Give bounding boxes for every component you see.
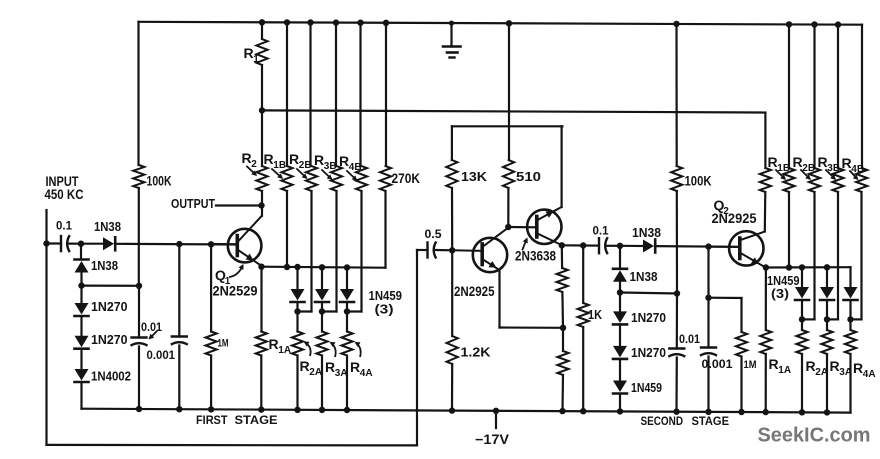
resistor R3B (first stage) [331,23,342,312]
svg-text:0.01: 0.01 [141,322,163,334]
svg-text:1N38: 1N38 [632,226,661,240]
node 0.001 top (second) [705,243,711,249]
wire 2N3638 emitter up [560,126,562,207]
svg-text:SECOND: SECOND [641,414,684,428]
label FIRST STAGE [196,413,278,427]
svg-text:2N2925: 2N2925 [712,211,757,226]
node shunt diode 2 top (first) [319,264,325,270]
resistor R2A (first stage) [292,312,303,411]
label R3B (second stage) [818,154,841,174]
wire C7 to bus [707,357,709,412]
wire chain tap to 100K node [82,285,140,287]
node 510 bottom / base 2N3638 [505,224,511,230]
resistor R4B column (second stage) [856,25,867,320]
wire chain segment d [80,316,82,336]
svg-text:OUTPUT: OUTPUT [171,196,215,211]
label 13K [461,170,487,184]
resistor R1B (first stage) [281,22,292,267]
wire input down leg [45,244,47,445]
arrow R2B [297,169,308,179]
resistor 270K [380,23,391,268]
label 0.1 (second stage) [593,224,609,238]
wire tee down to C7 [707,298,709,348]
label 1N38 shunt (second) [630,270,658,284]
resistor R1A (second stage) [760,268,771,413]
label 1N270 second (first) [91,332,128,347]
wire 0.001 column upper (second) [707,247,709,298]
label R4A (first stage) [350,359,373,379]
resistor 100K (second stage) [671,24,682,294]
node R1B bottom (first) [284,264,290,270]
label 1.2K [461,346,491,360]
wire jog R3B to diode b (second) [827,318,838,320]
svg-text:510: 510 [516,170,541,184]
wire C2 to ground bus [138,347,140,410]
arrow R2B second [801,170,811,180]
node R4A bottom (first) [344,407,350,413]
wire C1 to node [70,243,82,245]
svg-text:100K: 100K [147,173,172,189]
svg-text:R: R [768,154,778,170]
label R3B (first stage) [314,152,337,172]
diode 1N459 b (first stage) [315,267,329,311]
label 1M (second stage) [744,359,757,371]
svg-text:4B: 4B [349,162,362,173]
node diode a bottom (second) [799,316,805,322]
node R1B bottom (second) [786,264,792,270]
arrow 0.01 [149,332,157,340]
node C3 bottom [176,406,182,412]
wire jog R2B to diode a (second) [802,318,815,320]
wire chain segment a (second) [619,246,621,267]
wire jog R4B to diode c [347,310,362,312]
wire emitter row (first stage) [262,267,386,268]
svg-text:1N270: 1N270 [91,332,128,347]
capacitor 0.1 (second stage) [599,237,608,254]
svg-text:FIRST: FIRST [196,413,228,427]
arrow R1B [272,169,283,179]
svg-text:SeekIC.com: SeekIC.com [758,424,871,447]
node 1K top [580,242,586,248]
wire 0.001 column (first) [178,244,180,336]
wire 100K node down to C2 [138,286,140,338]
wire node to D1 [81,243,103,245]
node R1B top (second) [786,21,792,27]
wire Q2 collector up [764,192,767,232]
wire block top [452,125,563,127]
svg-text:1N270: 1N270 [631,345,666,360]
diode 1N38 series (second stage) [643,240,655,253]
resistor R2B column (second stage) [809,25,820,320]
wire D2 to Q2 base [657,245,741,248]
label 0.01 (second stage) [679,334,701,346]
node Q2 emitter [763,264,769,270]
node 1.2K bottom [449,407,455,413]
node 0.001 top (first) [176,241,182,247]
wire negative supply bus [82,409,851,413]
label 0.001 (first stage) [147,350,176,362]
label R2A (second stage) [806,358,829,378]
svg-text:100K: 100K [685,173,712,189]
resistor R3A (second stage) [821,319,832,412]
wire top supply rail [139,22,863,25]
label R2A (first stage) [300,358,323,378]
wire output lead [216,204,262,206]
node shunt diode 2 top (second) [824,264,830,270]
diode 1N459 shunt (second stage) [613,381,627,394]
node diode c bottom (first) [344,308,350,314]
svg-text:1A: 1A [778,365,791,376]
wire riser to C4 [417,249,428,251]
arrow R1B second [776,170,786,180]
node junction 100K / diode chain / C2 [136,283,142,289]
capacitor 0.5 (interstage) [428,242,437,259]
svg-text:R: R [314,152,324,168]
svg-text:1N38: 1N38 [91,259,118,273]
svg-text:R: R [242,150,252,166]
label 1N38 series (first) [94,220,121,234]
node R1 bottom / mid rail [259,107,265,113]
svg-text:STAGE: STAGE [235,413,278,427]
svg-text:3A: 3A [335,368,348,379]
svg-text:R: R [264,151,274,167]
wire emitter 2N2925 across [500,326,564,328]
svg-text:STAGE: STAGE [692,414,730,428]
node R2A bottom (second) [799,409,805,415]
transistor 2N3638 [527,207,562,245]
svg-text:R: R [806,358,816,374]
diode 1N459 a (second stage) [795,267,809,319]
label 1N270 first (first) [91,299,128,314]
label 1N459 (3) second stage [767,273,800,301]
label 1N4002 [91,369,131,384]
arrow R2 [247,167,257,177]
wire chain segment d (second) [619,325,621,346]
node R1A bottom (second) [763,409,769,415]
label 100K (second stage) [685,173,712,189]
resistor R2 [256,110,267,215]
wire chain segment e [80,349,82,369]
node chain tap (first) [78,282,84,288]
capacitor 0.001 (second stage) [700,348,717,356]
node 1M bottom (first) [208,406,214,412]
node R1A bottom (first) [258,406,264,412]
arrow Q1 [229,264,244,277]
svg-text:1K: 1K [588,308,602,322]
wire chain segment c (second) [619,293,621,312]
svg-text:R: R [818,154,828,170]
diode 1N4002 (first stage) [75,369,89,382]
node diode chain bottom (second) [617,408,623,414]
wire C6 to bus [675,358,677,412]
label 0.5 [425,227,442,241]
label 1N270 first (second) [631,310,666,325]
label 2N2529 [213,284,258,299]
wire mid rail (R1 bottom to second stage) [262,110,765,112]
svg-text:1N38: 1N38 [630,270,658,284]
node R3A bottom (first) [319,407,325,413]
node R1 top [259,19,265,25]
node R1B top (first) [284,19,290,25]
label OUTPUT [171,196,215,211]
svg-text:(3): (3) [375,302,394,317]
arrow 2N3638 [523,238,528,250]
arrow R4B [347,171,358,181]
wire chain segment c [80,286,82,303]
label 1N38 series (second) [632,226,661,240]
wire outer riser [416,250,418,445]
svg-text:1.2K: 1.2K [461,346,491,360]
svg-text:4A: 4A [360,368,373,379]
resistor R2B (first stage) [306,23,317,312]
arrow R4B second [850,171,859,180]
svg-text:(3): (3) [771,286,789,301]
wire input to C1 [47,242,62,244]
label 2N2925 (Q2) [712,211,757,226]
label Q1 [215,267,231,287]
wire emitter 2N2925 down [498,270,500,328]
resistor R1 [256,22,267,110]
wire chain segment f (second) [619,394,621,412]
svg-text:2N3638: 2N3638 [515,249,556,264]
label R1B (second stage) [768,154,791,174]
wire chain node to D2 [620,245,643,247]
resistor R4B (first stage) [356,23,367,312]
resistor 1.2K [447,250,458,410]
label R2 [242,150,258,170]
label 0.01 (first stage) [141,322,163,334]
arrow R2A [304,342,311,357]
svg-text:R: R [244,45,254,61]
wire tee to 1M (second) [709,297,742,299]
label R2B (first stage) [289,151,312,171]
label INPUT 450 KC [45,174,84,202]
diode 1N459 b (second stage) [820,267,834,319]
label 0.001 (second stage) [702,359,734,371]
wire base 2N3638 [508,226,537,229]
label Q2 [714,197,730,217]
resistor 510 [503,23,514,227]
resistor 13K [446,126,457,250]
resistor R4A (second stage) [845,319,856,412]
node diode chain top (second) [617,243,623,249]
node R3A bottom (second) [824,409,830,415]
svg-text:1N270: 1N270 [631,310,666,325]
label R4B (first stage) [339,153,362,173]
resistor R2A (second stage) [796,319,807,412]
node diode chain top (first) [78,241,84,247]
wire 0.001 to ground bus [178,346,180,410]
wire jog R4B to diode c (second) [851,318,862,320]
node input [43,240,49,246]
label 0.1 (input) [56,219,72,233]
svg-text:0.01: 0.01 [679,334,701,346]
node junction 100K / chain / 0.01 (second) [674,290,680,296]
node Q1 emitter [258,264,264,270]
transistor 2N2925 (driver) [452,229,507,273]
node shunt diode 3 top (first) [344,264,350,270]
diode 1N459 c (first stage) [340,268,354,312]
svg-text:1N459: 1N459 [631,380,662,395]
wire 100K node to C6 [676,294,678,349]
wire emitter row (second stage) [766,266,851,268]
node 0.001 bottom (second) [705,409,711,415]
label R2B (second stage) [793,154,816,174]
node diode c bottom (second) [847,316,853,322]
svg-text:1: 1 [253,54,259,65]
diode 1N270 second (first stage) [75,336,89,349]
resistor 1M (first stage) [206,244,217,409]
svg-text:R: R [300,358,310,374]
node collector-chain bottom [559,408,565,414]
svg-text:0.5: 0.5 [425,227,442,241]
arrow R3B second [826,170,836,180]
resistor R3B column (second stage) [832,25,843,320]
watermark SeekIC.com [758,424,871,447]
node 2N3638 collector / second stage input [559,242,565,248]
label R3A (second stage) [830,358,853,378]
resistor collector load upper [557,245,568,327]
resistor 1K [578,246,589,412]
svg-text:R: R [269,336,279,352]
node emitter junction mid [560,325,566,331]
label 2N2925 (driver) [454,284,495,299]
svg-text:R: R [853,360,863,376]
node R2B top (first) [307,19,313,25]
ground [443,21,461,58]
svg-text:2N2925: 2N2925 [454,284,495,299]
label 1N270 second (second) [631,345,666,360]
svg-text:R: R [289,151,299,167]
svg-text:13K: 13K [461,170,487,184]
wire chain segment b [80,272,82,286]
diode 1N38 shunt (second stage) [613,269,627,282]
label 1N38 shunt (first) [91,259,118,273]
svg-text:1A: 1A [278,345,291,356]
svg-text:R: R [842,155,852,171]
node 1K bottom [580,408,586,414]
resistor R1A (first stage) [256,267,267,410]
node 0.001 / 1M tee (second) [705,295,711,301]
wire chain segment b (second) [619,281,621,293]
resistor R4A (first stage) [341,312,352,411]
wire 100K column upper (first stage) [137,22,139,165]
label R4A (second stage) [853,360,876,380]
wire jog R2B to diode a [298,310,312,312]
node output [258,202,264,208]
node 270K top [383,20,389,26]
svg-text:R: R [830,358,840,374]
resistor R1B column A (second stage) [760,113,771,193]
svg-text:R: R [325,359,335,375]
label 1N459 (3) first stage [369,288,403,317]
resistor 100K (first stage) [133,165,144,286]
transistor Q2 2N2925 [709,231,765,266]
wire outer bottom return [47,444,418,447]
label R1A (second stage) [769,356,792,376]
svg-text:R: R [339,153,349,169]
node R3B top (first) [333,19,339,25]
node diode b bottom (second) [824,316,830,322]
label R4B (second stage) [842,155,865,175]
capacitor 0.001 (first stage) [171,337,188,345]
svg-text:2N2529: 2N2529 [213,284,258,299]
node diode a bottom (first) [294,308,300,314]
svg-text:0.1: 0.1 [593,224,609,238]
wire C4 to base node [436,249,452,252]
node chain tap (second) [617,289,623,295]
diode 1N270 first (second stage) [613,311,627,324]
svg-text:−17V: −17V [475,432,509,447]
node R3B top (second) [835,21,841,27]
label 2N3638 [515,249,556,264]
node 13K / base 2N2925 [449,247,455,253]
node shunt diode 1 top (second) [799,264,805,270]
arrow R3A [330,342,336,357]
arrow R3B [322,170,333,180]
node 1M top (first) [208,241,214,247]
label R1 [244,45,260,65]
svg-text:2B: 2B [299,160,312,171]
wire chain segment e (second) [619,359,621,380]
label 270K [392,171,421,186]
wire input terminal [45,210,47,244]
label 1M (first stage) [218,338,229,350]
svg-text:450 KC: 450 KC [45,187,84,202]
svg-text:1N4002: 1N4002 [91,369,131,384]
svg-text:1B: 1B [273,160,286,171]
resistor 1M (second stage) [736,298,747,412]
node -17V tap [493,408,499,414]
label 510 [516,170,541,184]
node R4B top (first) [357,20,363,26]
label SECOND STAGE [641,414,730,428]
svg-text:3B: 3B [324,161,337,172]
node R2A bottom (first) [294,407,300,413]
svg-text:R: R [793,154,803,170]
svg-text:1N38: 1N38 [94,220,121,234]
label 1N459 shunt (second) [631,380,662,395]
capacitor 0.01 (second stage) [668,349,685,357]
diode 1N270 first (first stage) [75,303,89,316]
svg-text:4A: 4A [863,369,876,380]
wire D1 to Q1 base [117,243,238,246]
label 100K (first stage) [147,173,172,189]
svg-text:1M: 1M [744,359,757,371]
capacitor 0.1 (input) [61,235,70,252]
wire chain segment a [80,244,82,258]
resistor R3A (first stage) [316,312,327,411]
svg-text:2A: 2A [309,367,322,378]
svg-text:0.001: 0.001 [147,350,176,362]
node shunt diode 1 top (first) [294,264,300,270]
diode 1N38 series (first stage) [103,237,115,250]
diode 1N270 second (second stage) [613,346,627,359]
svg-text:R: R [769,356,779,372]
node 0.01 bottom (second) [673,409,679,415]
node 1M bottom (second) [738,409,744,415]
resistor R1B column B (second stage) [783,24,794,267]
diode 1N38 shunt (first stage) [75,260,89,273]
wire C5 to chain node [608,245,621,247]
label R1A (first stage) [269,336,292,356]
arrow R4A [355,342,361,357]
label 1K [588,308,602,322]
svg-text:R: R [350,359,360,375]
wire chain tap to 100K node [620,293,677,294]
diode 1N459 c (second stage) [844,267,858,319]
svg-text:270K: 270K [392,171,421,186]
